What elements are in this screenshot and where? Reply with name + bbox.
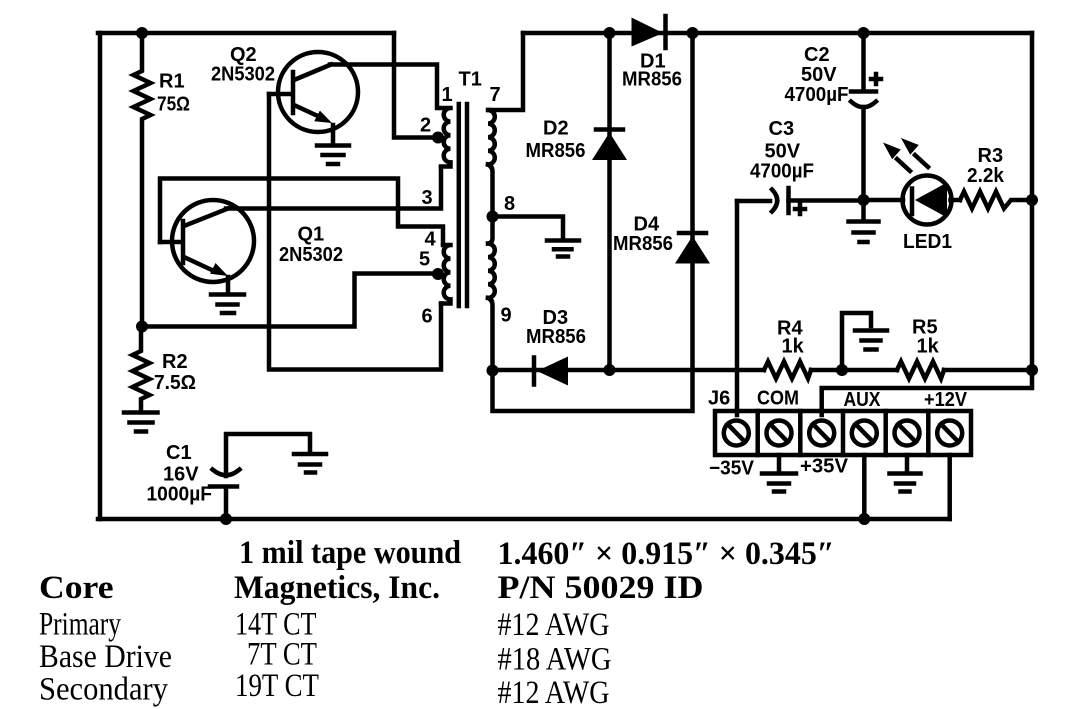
LED LED1: [903, 176, 953, 254]
label +12V: [924, 389, 968, 411]
ground below Q1: [211, 295, 244, 314]
svg-text:3: 3: [422, 187, 433, 209]
pin number labels T1: [442, 84, 453, 106]
node C2 top rail: [858, 27, 870, 39]
node R1/R2: [136, 321, 148, 333]
transformer T1 primary winding pins 1-2-3: [441, 108, 451, 167]
diode D1: [622, 16, 682, 91]
svg-text:8: 8: [504, 193, 515, 215]
label -35V: [709, 458, 755, 480]
svg-text:−35V: −35V: [709, 458, 755, 480]
wire pin 8 to ground: [493, 217, 564, 239]
wire C3 to J6 terminal 1: [735, 201, 740, 415]
wire R4 to R5: [811, 368, 897, 373]
resistor R1: [134, 33, 191, 326]
svg-text:#18 AWG: #18 AWG: [498, 642, 612, 678]
ground below COM: [762, 474, 796, 492]
svg-text:#12 AWG: #12 AWG: [498, 607, 610, 643]
svg-text:+35V: +35V: [800, 456, 849, 478]
svg-text:Secondary: Secondary: [39, 672, 168, 708]
wire pin9 jog to D4 anode riser: [493, 33, 693, 411]
diode D3: [526, 307, 586, 386]
svg-text:P/N 50029 ID: P/N 50029 ID: [498, 570, 704, 606]
wire top rail right segment: [523, 31, 1032, 36]
wire top rail to pin 2: [394, 33, 433, 138]
screw terminal 5: [895, 421, 920, 446]
svg-text:19T CT: 19T CT: [235, 668, 319, 704]
svg-text:2: 2: [420, 115, 431, 137]
transformer T1 core: [459, 69, 482, 307]
label +35V: [800, 456, 849, 478]
wire left edge: [98, 33, 103, 519]
table row 2: [39, 570, 704, 606]
svg-text:MR856: MR856: [613, 233, 673, 255]
svg-text:MR856: MR856: [526, 140, 586, 162]
svg-text:C1: C1: [166, 442, 192, 464]
svg-text:#12 AWG: #12 AWG: [498, 675, 610, 709]
transistor Q1: [160, 200, 343, 292]
svg-text:R3: R3: [978, 145, 1004, 167]
node R5 right edge: [1026, 364, 1038, 376]
svg-text:C3: C3: [769, 118, 795, 140]
transformer T1 secondary bottom winding pin 8-9: [488, 217, 495, 372]
wire AUX terminal to bottom rail: [862, 455, 867, 519]
capacitor C2: [785, 33, 882, 200]
svg-text:MR856: MR856: [622, 69, 682, 91]
wire COM terminal to ground: [777, 455, 782, 470]
transformer T1 secondary top winding pin 7-8: [488, 110, 495, 217]
label AUX: [844, 389, 882, 411]
node AUX bottom rail: [858, 513, 870, 525]
screw terminal 1: [724, 421, 749, 446]
wire node to LED: [864, 198, 904, 203]
svg-text:1k: 1k: [782, 336, 805, 358]
ground right of C1: [294, 454, 326, 473]
wire ground stub above R4 node: [842, 313, 871, 370]
svg-text:4700µF: 4700µF: [785, 84, 849, 106]
svg-text:75Ω: 75Ω: [157, 94, 190, 116]
ground at pin 8: [547, 241, 579, 257]
table row 4: [39, 637, 612, 678]
svg-text:Magnetics, Inc.: Magnetics, Inc.: [234, 570, 440, 606]
svg-text:MR856: MR856: [526, 326, 586, 348]
svg-text:1.460″ × 0.915″ × 0.345″: 1.460″ × 0.915″ × 0.345″: [498, 536, 835, 572]
LED1 emission arrow 2: [901, 138, 928, 167]
wire R5 to right edge: [944, 368, 1032, 373]
node C2/C3/LED junction: [858, 194, 870, 206]
svg-text:4700µF: 4700µF: [750, 161, 814, 183]
svg-text:50V: 50V: [801, 64, 837, 86]
svg-text:Base Drive: Base Drive: [39, 639, 172, 675]
svg-text:R2: R2: [162, 351, 188, 373]
node pin 9 rail: [487, 365, 499, 377]
ground below C2 node: [849, 200, 879, 242]
svg-text:9: 9: [501, 305, 512, 327]
label J6: [708, 388, 730, 410]
wire bottom rail: [98, 517, 950, 522]
svg-text:C2: C2: [804, 44, 830, 66]
resistor R5: [897, 317, 944, 379]
node pin 5 tap: [432, 268, 444, 280]
wire Q2 base to pin 6: [269, 94, 441, 370]
node R1 top rail: [136, 27, 148, 39]
svg-text:2N5302: 2N5302: [279, 244, 343, 266]
diode D4: [613, 214, 710, 264]
svg-text:5: 5: [419, 249, 430, 271]
svg-text:+12V: +12V: [924, 389, 968, 411]
svg-text:6: 6: [422, 306, 433, 328]
capacitor C1: [147, 434, 311, 519]
wire +12V terminal to bottom rail: [947, 455, 952, 519]
svg-text:T1: T1: [459, 69, 482, 91]
ground at R4/R5 node: [855, 331, 887, 350]
wire pin 7 riser: [489, 33, 523, 110]
svg-text:Core: Core: [39, 570, 114, 606]
svg-text:1k: 1k: [917, 336, 940, 358]
svg-text:R1: R1: [159, 71, 185, 93]
svg-text:16V: 16V: [163, 464, 199, 486]
ground below Q2: [317, 146, 349, 165]
wire secondary lower rail y=370: [493, 368, 765, 373]
svg-text:1 mil tape wound: 1 mil tape wound: [239, 535, 461, 571]
svg-text:D2: D2: [543, 118, 569, 140]
node R4/ground stub: [836, 364, 848, 376]
wire terminal 5 to ground: [905, 455, 910, 470]
terminal strip J6 outline: [715, 411, 971, 455]
svg-text:2N5302: 2N5302: [211, 64, 275, 86]
wire Q1 base to pin 4: [160, 179, 443, 244]
resistor R4: [764, 318, 811, 379]
transistor Q2: [211, 44, 358, 143]
screw terminal 3: [809, 421, 834, 446]
svg-text:COM: COM: [757, 388, 799, 410]
svg-text:AUX: AUX: [844, 389, 882, 411]
wire right edge down to +35V terminal: [822, 33, 1032, 415]
node D1 anode top rail: [604, 27, 616, 39]
diode D2: [526, 118, 628, 163]
node D2 rail: [604, 364, 616, 376]
screw terminal 4: [852, 421, 877, 446]
label COM: [757, 388, 799, 410]
svg-text:2.2k: 2.2k: [967, 165, 1005, 187]
svg-text:LED1: LED1: [903, 231, 952, 253]
node pin 2 tap: [432, 132, 444, 144]
resistor R2: [133, 327, 197, 411]
svg-text:50V: 50V: [765, 141, 801, 163]
ground below R2: [124, 413, 158, 432]
LED1 emission arrow 1: [883, 143, 910, 172]
svg-text:Q1: Q1: [298, 224, 325, 246]
table row 1: [239, 535, 835, 572]
resistor R3: [960, 145, 1032, 209]
wire top rail left segment: [98, 31, 394, 36]
svg-text:Primary: Primary: [39, 607, 121, 643]
table row 5: [39, 668, 610, 709]
svg-text:1: 1: [442, 84, 453, 106]
wire Q2 collector to pin 1: [330, 65, 437, 109]
svg-text:4: 4: [425, 229, 437, 251]
ground below terminal 5: [890, 474, 921, 492]
wire Q1 collector to pin 3: [226, 167, 441, 209]
svg-text:1000µF: 1000µF: [147, 484, 213, 506]
table row 3: [39, 607, 610, 644]
wire D2 branch: [607, 33, 612, 370]
capacitor C3: [737, 118, 858, 214]
svg-text:J6: J6: [708, 388, 730, 410]
wire node to pin 5: [142, 274, 433, 327]
screw terminal 6: [937, 421, 962, 446]
node C1/bottom rail: [220, 513, 232, 525]
node R3 right edge: [1026, 194, 1038, 206]
node D1 cathode top rail: [687, 27, 699, 39]
node pin 8: [487, 211, 499, 223]
wire LED to R3: [951, 198, 961, 203]
svg-text:7: 7: [490, 84, 501, 106]
screw terminal 2: [767, 421, 792, 446]
svg-text:7.5Ω: 7.5Ω: [154, 372, 196, 394]
transformer T1 base-drive winding pins 4-5-6: [441, 245, 451, 304]
